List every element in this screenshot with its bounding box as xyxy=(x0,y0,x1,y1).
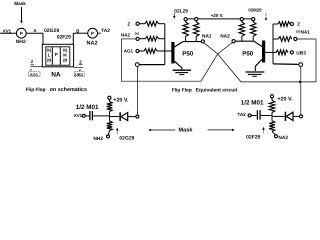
input (a)NA1 (right) xyxy=(273,38,278,40)
base wire right transistor xyxy=(265,51,273,53)
Mask dimension arrow right xyxy=(208,129,233,131)
crossover wire from NA2 (horizontal) xyxy=(121,80,201,82)
wire trigger down to diode output (right) xyxy=(300,67,302,116)
svg-text:Z: Z xyxy=(79,59,82,64)
wire XV1 input xyxy=(0,32,16,34)
svg-text:+20 V.: +20 V. xyxy=(113,98,129,104)
svg-text:Flip Flop: Flip Flop xyxy=(172,87,192,93)
relay 02F29/02G29 inner box xyxy=(46,47,70,65)
svg-text:on schematics: on schematics xyxy=(50,87,87,93)
svg-text:P50: P50 xyxy=(182,51,194,58)
resistor (AG1 input, left) xyxy=(144,49,157,54)
svg-text:NA: NA xyxy=(51,72,61,79)
svg-text:Mask: Mask xyxy=(14,1,26,6)
svg-text:29: 29 xyxy=(47,58,52,63)
module ref UB3 box xyxy=(74,72,84,77)
svg-text:Z: Z xyxy=(31,59,34,64)
terminal P (TA2 side) xyxy=(88,28,98,38)
svg-text:P: P xyxy=(20,31,23,36)
svg-text:P: P xyxy=(91,31,94,36)
output terminal 02F29 (right) xyxy=(300,115,303,118)
crossover wire from NA1 (horizontal right) xyxy=(241,81,316,83)
pull-down resistor (right trigger) xyxy=(269,121,275,132)
svg-text:TA2: TA2 xyxy=(237,112,246,117)
svg-text:NH2: NH2 xyxy=(16,39,26,45)
terminal NA2 (bottom) xyxy=(274,135,277,138)
svg-text:XV1: XV1 xyxy=(3,29,12,34)
collector load resistor 2 (left pair) xyxy=(195,18,198,21)
junction arrowhead on crossover wire (right) xyxy=(299,80,302,83)
base bus (right) xyxy=(272,24,274,64)
svg-text:AG1: AG1 xyxy=(30,72,39,77)
svg-text:1/2 M01: 1/2 M01 xyxy=(76,104,99,111)
module ref AG1 box xyxy=(29,72,40,77)
svg-text:TA2: TA2 xyxy=(101,28,110,34)
input Z (right) xyxy=(273,23,278,25)
svg-text:02F29: 02F29 xyxy=(57,35,71,41)
svg-text:Flip Flop: Flip Flop xyxy=(26,87,46,93)
wire to TA2 xyxy=(98,32,101,34)
transistor P50 (left) bar xyxy=(171,42,174,64)
pull-up resistor (left trigger) xyxy=(108,99,110,101)
terminal NH2 xyxy=(107,135,110,138)
emitter (left) xyxy=(174,61,181,67)
base wire left transistor xyxy=(157,50,172,52)
ground (left) xyxy=(173,69,191,71)
svg-text:Mask: Mask xyxy=(179,127,194,134)
collector (left) xyxy=(174,42,183,47)
svg-text:NH2: NH2 xyxy=(93,136,103,142)
capacitor C (left trigger) xyxy=(89,111,91,120)
crossover diagonal from NA2 xyxy=(201,43,233,82)
collector load resistors (right pair) R-02M29 xyxy=(240,18,243,21)
svg-text:02G29: 02G29 xyxy=(119,135,134,141)
ground (right) xyxy=(246,71,265,73)
svg-text:02L29: 02L29 xyxy=(174,9,188,15)
+20V terminal (left trigger) xyxy=(108,96,111,99)
capacitor C (right trigger) xyxy=(256,110,258,119)
wire down into NA box right xyxy=(72,33,74,44)
+20V rail top xyxy=(186,18,254,20)
resistor (NA2 input, left) xyxy=(146,36,159,41)
wire bus to trigger node xyxy=(139,64,165,66)
svg-text:NA2: NA2 xyxy=(220,33,230,39)
node A wire xyxy=(26,32,43,34)
svg-text:A: A xyxy=(33,28,37,33)
svg-text:02M29: 02M29 xyxy=(248,8,262,13)
module NA outer box xyxy=(42,44,73,67)
svg-text:(a): (a) xyxy=(135,31,139,35)
wire NA2(a) stub to crossover xyxy=(121,38,136,40)
svg-text:P: P xyxy=(55,52,58,57)
svg-text:NA1: NA1 xyxy=(202,33,212,39)
svg-text:AG1: AG1 xyxy=(124,49,134,54)
svg-text:NA2: NA2 xyxy=(278,135,288,141)
svg-text:(a): (a) xyxy=(296,30,300,34)
svg-text:02F29: 02F29 xyxy=(246,134,260,140)
svg-text:UB3: UB3 xyxy=(75,72,84,77)
diode (right trigger) xyxy=(272,115,285,117)
trigger terminal (right) xyxy=(299,63,303,67)
wire bus to trigger node (right) xyxy=(273,63,299,66)
svg-text:XV1: XV1 xyxy=(74,113,83,118)
svg-text:P50: P50 xyxy=(242,50,254,57)
crossover diagonal from NA1 xyxy=(204,43,241,82)
svg-text:a: a xyxy=(30,67,32,71)
svg-text:29: 29 xyxy=(63,58,68,63)
svg-text:NA2: NA2 xyxy=(87,41,98,47)
svg-text:+20 V.: +20 V. xyxy=(277,96,293,102)
svg-text:B: B xyxy=(76,28,79,33)
diode (left trigger) xyxy=(110,116,120,118)
svg-text:NA1: NA1 xyxy=(301,30,310,35)
wire Z to NA box xyxy=(31,66,43,68)
wire down into NA box left xyxy=(42,33,44,44)
trigger terminal (left) xyxy=(135,63,139,67)
base bus (left) xyxy=(164,24,166,65)
transistor P50 (right) bar xyxy=(262,41,265,63)
terminal P (XV1 side) xyxy=(16,28,26,38)
svg-text:02G29: 02G29 xyxy=(44,28,59,34)
svg-text:Z: Z xyxy=(127,21,130,26)
node B wire xyxy=(73,32,87,34)
resistor (Z input, left) xyxy=(145,21,159,26)
svg-text:+20 V.: +20 V. xyxy=(211,13,224,18)
stub (a)NA1 to crossover vertical xyxy=(297,38,316,40)
emitter (right) xyxy=(255,59,262,66)
collector node wire (left) xyxy=(183,41,201,43)
collector diagonal (right) xyxy=(254,41,262,46)
wire trigger down to diode output xyxy=(136,67,138,116)
Mask dimension arrow left xyxy=(148,129,151,132)
svg-text:NA2: NA2 xyxy=(121,32,130,37)
arrow from Mask label pointing down xyxy=(21,7,23,21)
pull-down resistor (left trigger) xyxy=(107,121,113,131)
svg-text:1/2 M01: 1/2 M01 xyxy=(241,100,264,107)
wire Z to UB3 xyxy=(74,66,83,68)
output terminal 02G29 (left) xyxy=(136,115,139,118)
collector node wire (right) xyxy=(235,40,254,42)
pull-up resistor (right trigger) xyxy=(269,100,275,112)
input UB3 (right) xyxy=(273,51,276,53)
svg-text:UB3: UB3 xyxy=(296,51,306,57)
collector load resistor R-02L29 xyxy=(184,18,187,21)
svg-text:Z: Z xyxy=(297,22,300,27)
svg-text:Equivalent circuit: Equivalent circuit xyxy=(196,87,238,93)
+20V terminal (right trigger) xyxy=(270,95,273,98)
